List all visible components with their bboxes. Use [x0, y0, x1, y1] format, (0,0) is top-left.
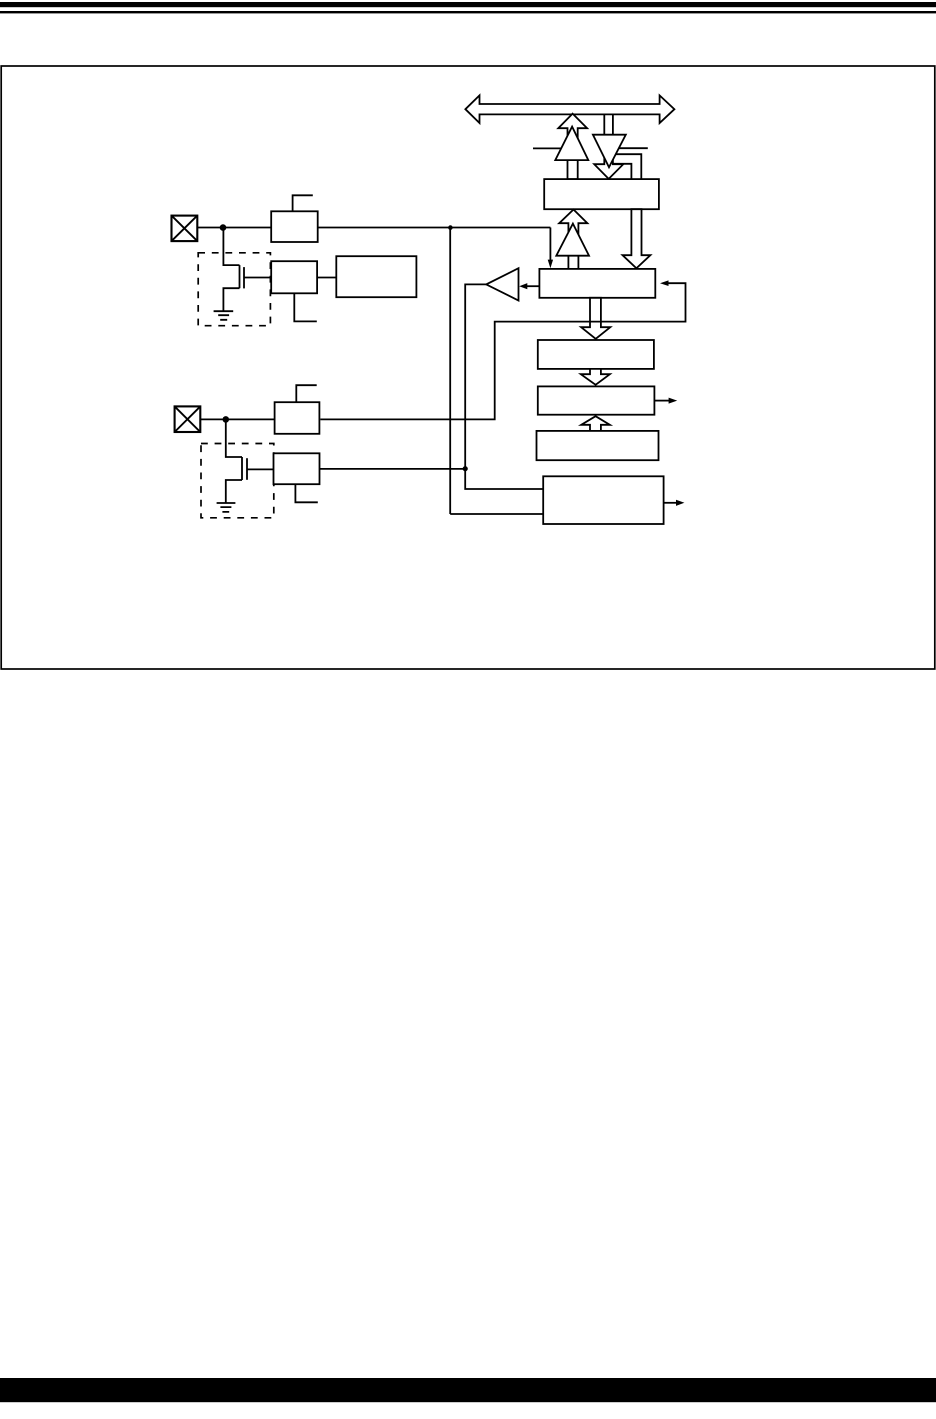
wire block B to block C [317, 277, 336, 279]
block U6 [543, 476, 663, 524]
read channel elbow outer [615, 154, 642, 179]
transistor Q2 gate lead [247, 468, 274, 470]
block E [274, 453, 320, 484]
pin P20 pad X [172, 216, 198, 242]
footer bar [0, 1378, 936, 1402]
transistor Q2 dashed box [201, 444, 274, 518]
transistor Q1 dashed box [198, 253, 270, 326]
header rule [0, 11, 936, 13]
block A [271, 211, 318, 242]
driver triangle down [593, 135, 626, 168]
register block U2 [539, 269, 655, 298]
block B stub [294, 293, 317, 321]
read channel elbow inner [612, 164, 631, 179]
wire U4 output [654, 400, 669, 402]
hollow down arrow U2 to U3 [581, 298, 610, 339]
figure frame [1, 66, 935, 669]
wire into U6 lower [450, 513, 543, 515]
block C [336, 256, 416, 297]
ground G2 [217, 503, 236, 512]
arrowhead into U2 top [548, 260, 553, 269]
block D [275, 402, 320, 434]
transistor Q2 drain lead [226, 419, 242, 457]
wire block E to node J3 [320, 468, 466, 470]
node J3 [463, 466, 468, 471]
wire block A to write path [318, 227, 551, 229]
pin P21 pad X [175, 406, 201, 432]
block U4 [538, 386, 655, 414]
internal bus double arrow [465, 95, 674, 123]
hollow up arrow to U1 [559, 210, 587, 269]
transistor Q2 channel [241, 457, 243, 480]
wire buffer output [465, 284, 543, 489]
node J2 [448, 225, 453, 230]
header bar [0, 2, 936, 7]
pin P20 pad [172, 216, 198, 242]
wire pin P21 to block D [200, 418, 274, 420]
hollow down arrow U3 to U4 [581, 369, 610, 385]
node J4 [223, 416, 230, 423]
driver triangle up [555, 127, 588, 161]
arrowhead into buffer [519, 283, 527, 289]
block U5 [537, 431, 659, 460]
transistor Q1 gate lead [244, 277, 271, 279]
hollow up arrow U5 to U4 [581, 416, 610, 431]
node J1 [220, 224, 227, 231]
output driver enable stub [533, 147, 563, 149]
transistor Q2 gate bar [246, 458, 248, 480]
input buffer enable stub [617, 147, 648, 149]
arrowhead into U2 right [660, 280, 669, 286]
pin P21 pad [175, 406, 201, 432]
block B [271, 261, 317, 293]
wire drop into U2 top [549, 228, 551, 261]
transistor Q1 channel [239, 265, 241, 288]
transistor Q2 source lead [226, 480, 242, 503]
block U3 [538, 340, 654, 369]
driver triangle up 2 [556, 224, 589, 256]
transistor Q1 source lead [223, 288, 239, 311]
arrowhead U6 output [676, 500, 684, 506]
latch block U1 [544, 179, 659, 209]
wire pin P20 to block A [197, 227, 271, 229]
wire U6 output [664, 502, 677, 504]
hollow up arrow to bus [558, 114, 587, 180]
output buffer triangle [486, 268, 518, 300]
transistor Q1 gate bar [243, 267, 245, 288]
hollow down arrow U1 to U2 [623, 209, 651, 268]
wire node J2 down [449, 228, 451, 515]
transistor Q1 drain lead [223, 228, 239, 266]
arrowhead U4 output [669, 398, 678, 404]
feedback wire to U2 [320, 283, 685, 419]
ground G1 [214, 311, 234, 320]
block A clock stub [293, 195, 313, 211]
block E stub [295, 484, 317, 502]
wire U2 to buffer [527, 285, 540, 287]
hollow down arrow from bus [594, 114, 623, 178]
block D clock stub [296, 385, 316, 402]
